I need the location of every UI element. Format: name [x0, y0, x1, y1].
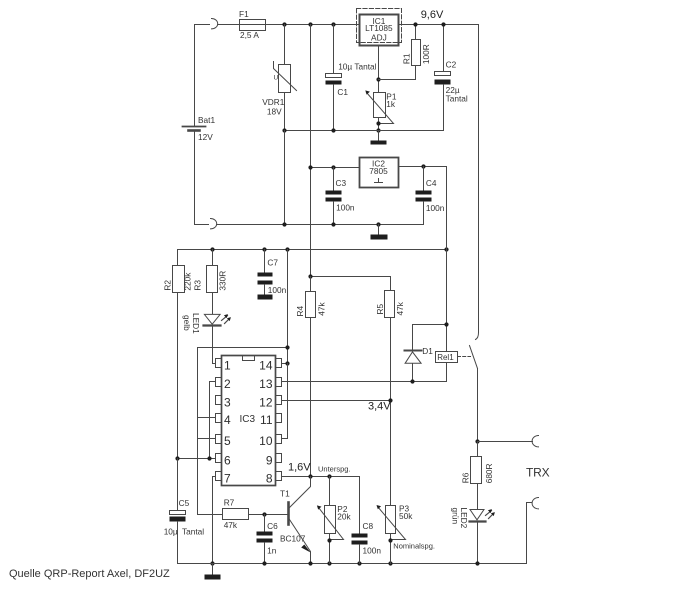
wire: minus rail 3: [217, 224, 424, 226]
svg-text:T1: T1: [280, 489, 290, 499]
svg-text:14: 14: [259, 359, 273, 373]
wire: pin2 to pin6 net: [210, 382, 216, 459]
svg-text:100n: 100n: [268, 285, 287, 295]
svg-text:680R: 680R: [484, 463, 494, 483]
resistor R2: [173, 250, 185, 459]
junction rail / T1 emitter: [308, 561, 312, 565]
svg-text:2: 2: [224, 377, 231, 391]
relay Rel1 coil: [436, 352, 458, 363]
relay actuation dashed link: [458, 356, 471, 358]
svg-text:LT1085: LT1085: [365, 23, 393, 33]
wire: 5V feed to IC3 pins 14/4/10: [287, 250, 289, 363]
resistor R7: [223, 509, 249, 520]
wire: 5V rail 4: [178, 249, 447, 251]
svg-text:Nominalspg.: Nominalspg.: [393, 542, 435, 551]
connector plug bottom (battery -): [211, 219, 217, 229]
svg-text:1: 1: [224, 359, 231, 373]
P2 wiper arrowhead: [317, 505, 322, 509]
wire: pin12 to R5 (node 3,4V): [282, 400, 391, 402]
junction pin2/pin6: [207, 456, 211, 460]
svg-text:4: 4: [224, 413, 231, 427]
svg-text:220k: 220k: [183, 272, 193, 291]
potentiometer P1: [367, 93, 394, 131]
svg-text:330R: 330R: [218, 271, 228, 291]
svg-text:100n: 100n: [426, 203, 445, 213]
junction P1 wiper: [376, 121, 380, 125]
svg-text:C6: C6: [267, 521, 278, 531]
svg-text:50k: 50k: [399, 511, 413, 521]
junction top rail / C1: [331, 22, 335, 26]
wire: 12V feed down (x=310): [310, 25, 312, 277]
svg-text:6: 6: [224, 454, 231, 468]
regulator IC1 body: [360, 15, 399, 46]
svg-text:13: 13: [259, 377, 273, 391]
svg-text:9,6V: 9,6V: [421, 9, 444, 21]
ground symbol bottom: [205, 564, 221, 580]
svg-text:Rel1: Rel1: [437, 353, 454, 362]
junction D1 bottom / pin13 wire: [410, 379, 414, 383]
potentiometer P3: [378, 506, 406, 564]
junction rail / P3: [388, 561, 392, 565]
connector plug top (battery +): [212, 19, 218, 29]
switch fixed contact hook: [476, 333, 479, 340]
svg-text:C4: C4: [426, 178, 437, 188]
junction P3 wiper: [388, 538, 392, 542]
junction pin6 net / R2 column: [175, 456, 179, 460]
junction rail3 / C3: [331, 222, 335, 226]
svg-text:Tantal: Tantal: [182, 527, 204, 537]
resistor R4: [306, 277, 316, 476]
capacitor C7 (100n) with ground: [258, 250, 273, 295]
wire: 12V branch to R4/R5: [311, 277, 391, 291]
junction top rail / C2: [441, 22, 445, 26]
wire: pin13 to relay: [282, 381, 447, 383]
svg-text:1,6V: 1,6V: [288, 462, 311, 474]
junction top rail / VDR1: [282, 22, 286, 26]
svg-text:12: 12: [259, 396, 273, 410]
capacitor C6 (1n): [257, 515, 273, 564]
svg-text:R4: R4: [295, 306, 305, 317]
wire: bottom ground rail: [178, 503, 532, 564]
junction rail / C8: [357, 561, 361, 565]
junction ADJ/R1: [376, 77, 380, 81]
wire: R7 to T1 base: [249, 514, 289, 516]
wire: VDR column to minus rail: [284, 131, 286, 225]
svg-text:TRX: TRX: [526, 466, 550, 480]
junction rail3 / VDR column: [282, 222, 286, 226]
junction pin7 ground: [210, 561, 214, 565]
fuse F1: [240, 20, 266, 31]
IC3 pin boxes left (1-7): [216, 359, 222, 481]
svg-text:7805: 7805: [369, 166, 388, 176]
wire: ground rail 2: [285, 130, 444, 132]
junction rail2 / VDR1: [282, 128, 286, 132]
diode D1: [405, 325, 447, 382]
wire: pin6 stub to R2 column: [178, 458, 216, 460]
svg-text:100n: 100n: [336, 203, 355, 213]
svg-text:R7: R7: [224, 498, 235, 508]
junction rail4 / IC3 supply: [285, 247, 289, 251]
svg-text:C7: C7: [267, 258, 278, 268]
svg-text:47k: 47k: [224, 520, 238, 530]
svg-text:100n: 100n: [363, 546, 382, 556]
svg-text:VDR1: VDR1: [262, 97, 285, 107]
svg-text:5: 5: [224, 434, 231, 448]
junction pin12 / R5: [388, 398, 392, 402]
junction IC2 input / C3: [331, 165, 335, 169]
ground symbol below P1: [371, 131, 387, 145]
svg-text:8: 8: [266, 472, 273, 486]
junction P2 wiper: [327, 538, 331, 542]
potentiometer P2: [319, 477, 344, 564]
wire: pin14 stub: [282, 363, 288, 365]
svg-text:BC107: BC107: [280, 533, 306, 543]
capacitor C1 (10u tantal): [326, 25, 342, 131]
junction R7 / C6: [262, 512, 266, 516]
svg-text:7: 7: [224, 472, 231, 486]
LED1 (gelb): [204, 314, 221, 363]
resistor R6: [471, 442, 482, 510]
wire: to TRX plus connector: [478, 441, 533, 443]
junction rail4 / relay column: [444, 247, 448, 251]
svg-text:Unterspg.: Unterspg.: [318, 465, 351, 474]
capacitor C2 (22u tantal): [435, 25, 451, 131]
IC3 pin boxes right (8-14): [276, 359, 282, 481]
svg-text:18V: 18V: [267, 107, 282, 117]
junction rail2 / C1: [331, 128, 335, 132]
relay switch blade: [470, 346, 478, 369]
wire: IC1 ADJ pin down: [378, 46, 380, 93]
svg-text:R3: R3: [193, 280, 203, 291]
ground symbol below IC2: [371, 225, 388, 240]
P1 wiper arrowhead: [365, 90, 370, 94]
LED1 emission arrows: [222, 314, 231, 323]
svg-text:10µ Tantal: 10µ Tantal: [338, 61, 376, 71]
svg-text:20k: 20k: [337, 511, 351, 521]
svg-text:1k: 1k: [386, 99, 396, 109]
svg-text:R6: R6: [461, 472, 471, 483]
wire: pin5 net to R7: [198, 514, 223, 516]
LED2 emission arrows: [486, 509, 495, 518]
transistor T1 BC107: [289, 477, 311, 564]
varistor VDR1: [274, 25, 297, 131]
svg-text:R2: R2: [162, 280, 172, 291]
IC2 internal ground pin glyph: [375, 179, 383, 183]
capacitor C5 (10u tantal): [170, 459, 186, 564]
svg-text:C3: C3: [336, 178, 347, 188]
svg-text:gelb: gelb: [182, 315, 192, 331]
wire: pin4 stub: [198, 417, 216, 419]
junction D1 top / relay column: [444, 322, 448, 326]
svg-text:IC3: IC3: [240, 414, 256, 425]
svg-text:grün: grün: [451, 508, 461, 525]
P3 wiper arrowhead: [377, 505, 382, 509]
svg-text:10: 10: [259, 434, 273, 448]
capacitor C4 (100n): [416, 167, 432, 225]
svg-text:1n: 1n: [267, 546, 277, 556]
svg-text:12V: 12V: [198, 132, 213, 142]
wire: pin7 to ground: [213, 477, 216, 564]
junction pin8 / R4 / T1 collector: [308, 474, 312, 478]
ground symbol below C7: [258, 295, 273, 300]
T1 emitter arrowhead: [301, 545, 310, 553]
junction rail / P2: [327, 561, 331, 565]
wire: IC2 input from 12V feed: [311, 167, 360, 169]
wire: C4 column down to relay: [446, 167, 448, 352]
junction top rail / R1: [413, 22, 417, 26]
capacitor C8 (100n): [352, 477, 368, 564]
wire: pin5 stub: [198, 438, 216, 440]
capacitor C3 (100n): [326, 168, 342, 225]
svg-text:100R: 100R: [421, 44, 431, 64]
svg-text:47k: 47k: [317, 301, 327, 315]
resistor R3: [207, 250, 218, 315]
svg-text:U: U: [274, 75, 279, 82]
junction pin14: [285, 361, 289, 365]
svg-text:D1: D1: [422, 346, 433, 356]
wire: IC2 output: [399, 166, 447, 168]
resistor R1: [379, 25, 421, 80]
junction 12V feed / IC2 input: [308, 165, 312, 169]
junction rail4 / R3: [210, 247, 214, 251]
junction rail3 / IC2 ground: [376, 222, 380, 226]
svg-text:11: 11: [260, 413, 273, 427]
connector TRX plus: [532, 436, 538, 447]
junction R4 top: [308, 274, 312, 278]
svg-text:C5: C5: [179, 498, 190, 508]
battery Bat1: [183, 25, 210, 225]
IC3 notch marker: [243, 356, 255, 361]
svg-text:Bat1: Bat1: [198, 115, 215, 125]
LED2 (gruen): [470, 510, 486, 564]
junction IC2 output / C4: [421, 164, 425, 168]
op-amp U1 regulator IC1 LT1085 dashed outline: [357, 9, 402, 43]
svg-text:R1: R1: [402, 53, 412, 64]
wire: IC1 output to right: [399, 24, 479, 26]
connector TRX minus: [532, 498, 538, 509]
junction pin8 / P2: [327, 474, 331, 478]
junction P1 / ground rail: [376, 128, 380, 132]
junction rail / LED2: [475, 561, 479, 565]
junction switched output / R6: [475, 439, 479, 443]
svg-text:9: 9: [266, 454, 273, 468]
svg-text:Quelle QRP-Report Axel, DF2UZ: Quelle QRP-Report Axel, DF2UZ: [9, 568, 170, 580]
wire: switched output down: [477, 369, 479, 442]
svg-text:Tantal: Tantal: [446, 93, 468, 103]
wire: relay coil bottom: [446, 363, 448, 382]
svg-text:47k: 47k: [395, 301, 405, 315]
svg-text:2,5 A: 2,5 A: [240, 30, 259, 40]
svg-text:R5: R5: [375, 304, 385, 315]
junction 5V feed / pin4 branch: [285, 345, 289, 349]
svg-text:C2: C2: [446, 59, 457, 69]
IC3 body: [222, 356, 276, 486]
wire: 5V feed down to pin10: [282, 364, 288, 439]
resistor R5: [385, 291, 395, 506]
svg-text:3,4V: 3,4V: [368, 401, 391, 413]
junction rail4 / C7: [262, 247, 266, 251]
svg-text:10µ: 10µ: [164, 527, 178, 537]
wire: +12V top rail: [218, 24, 360, 26]
wire: pin8 node 1,6V: [282, 476, 360, 478]
svg-text:3: 3: [224, 396, 231, 410]
svg-text:ADJ: ADJ: [371, 33, 387, 43]
svg-text:F1: F1: [239, 9, 249, 19]
svg-text:C1: C1: [337, 87, 348, 97]
wire: 9,6V rail down right side: [478, 25, 480, 333]
junction top rail / 12V feed: [308, 22, 312, 26]
regulator IC2 7805: [360, 158, 399, 188]
junction rail / C6: [262, 561, 266, 565]
svg-text:C8: C8: [363, 521, 374, 531]
